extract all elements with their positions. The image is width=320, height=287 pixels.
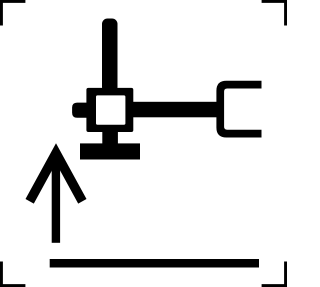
corner bracket top-left [0,0,25,26]
base foot [80,143,140,159]
up arrow shaft [52,157,60,243]
horizontal arm [130,102,220,118]
corner bracket bottom-right [262,262,287,287]
corner bracket bottom-left [0,262,25,287]
baseline bar [50,259,259,268]
lower stem below carriage [102,120,118,144]
corner bracket top-right [262,0,287,26]
carriage hollow center [96,95,125,124]
up arrow head [26,143,87,203]
vertical column (rod with rounded cap) [102,19,118,93]
side knob (left bump on carriage) [72,103,87,118]
fork gripper (C shape open right) [216,81,261,138]
carriage outer square [86,88,133,132]
